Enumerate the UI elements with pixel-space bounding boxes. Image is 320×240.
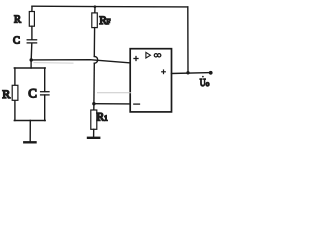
- wire: parallel RC bottom edge: [14, 120, 45, 122]
- wire: parallel RC left edge: [14, 68, 16, 121]
- ground (left): [24, 141, 35, 143]
- svg-text:R: R: [14, 15, 21, 26]
- op-amp gain triangle: [146, 52, 151, 58]
- wire: op-amp output to terminal: [172, 72, 211, 75]
- node: RF / top rail junction blob: [94, 5, 97, 8]
- wire: parallel RC right edge upper: [44, 68, 46, 91]
- op-amp U1 (rectangle symbol): [130, 49, 171, 112]
- capacitor C (parallel, in box): [41, 92, 49, 95]
- resistor RF: [92, 13, 98, 28]
- svg-text:o: o: [206, 80, 210, 88]
- wire: node A to op-amp + input: [31, 60, 130, 63]
- wire: parallel RC to ground: [29, 121, 31, 142]
- svg-text:C: C: [28, 86, 37, 101]
- wire: resistor R to capacitor C: [31, 26, 33, 39]
- resistor R (parallel, in box): [12, 85, 18, 100]
- wire: node A down to parallel RC: [30, 60, 32, 68]
- svg-text:R: R: [2, 87, 10, 101]
- wire: parallel RC right edge lower: [44, 95, 46, 121]
- scan ghost line near + input wire: [34, 62, 73, 65]
- capacitor C (series, top-left): [27, 40, 36, 43]
- svg-text:C: C: [13, 36, 20, 47]
- wire: inverting node to op-amp - input: [94, 103, 130, 105]
- wire: top feedback rail: [32, 5, 188, 8]
- wire: capacitor C down to node A: [30, 44, 33, 60]
- wire: stub from top rail to resistor RF: [94, 7, 96, 13]
- op-amp + input mark: [134, 57, 138, 61]
- wire: feedback vertical from output node to top rail: [187, 7, 189, 73]
- wire: inverting node down to R1: [93, 104, 95, 110]
- svg-text:1: 1: [104, 114, 108, 123]
- wire: hop down to inverting node: [93, 63, 95, 103]
- node: output/feedback junction dot: [186, 71, 189, 74]
- op-amp output + polarity mark: [162, 70, 166, 74]
- resistor R (series, top-left): [29, 12, 34, 27]
- wire: parallel RC top edge: [14, 67, 45, 69]
- op-amp infinity gain mark: [154, 54, 161, 57]
- wire: RF down to crossover hop: [93, 28, 95, 57]
- wire: stub from top rail to resistor R: [31, 6, 33, 11]
- ground (right): [88, 137, 99, 139]
- output terminal dot: [209, 71, 213, 75]
- wire: R1 to ground: [93, 129, 95, 136]
- scan ghost line near - input wire: [98, 92, 131, 94]
- wire: crossover hop (no connection) over + input wire: [94, 56, 97, 63]
- resistor R1: [91, 110, 97, 129]
- svg-text:F: F: [106, 17, 110, 26]
- node A junction dot: [30, 58, 33, 61]
- op-amp - input mark: [134, 103, 140, 105]
- node: inverting input junction dot: [92, 102, 95, 105]
